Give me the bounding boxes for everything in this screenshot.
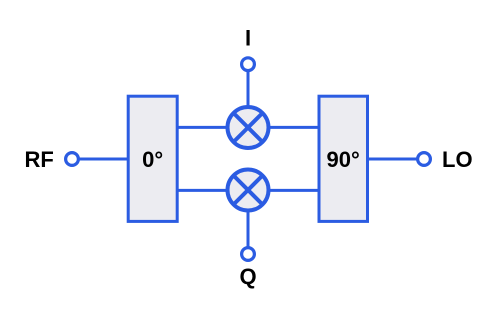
wire splitter to bottom mixer — [177, 189, 227, 192]
port LO terminal — [418, 153, 431, 166]
svg-text:Q: Q — [239, 264, 256, 289]
svg-text:0°: 0° — [142, 147, 163, 172]
port RF terminal — [66, 153, 79, 166]
wire bottom mixer to Q port — [247, 212, 250, 247]
wire splitter to top mixer — [177, 126, 227, 129]
mixer M1 (I branch) — [228, 107, 269, 148]
port I terminal — [242, 58, 255, 71]
mixer M2 (Q branch) — [228, 170, 269, 211]
wire I port to top mixer — [247, 71, 250, 106]
svg-text:I: I — [245, 26, 251, 51]
block U1 0-deg splitter — [128, 96, 177, 221]
svg-text:90°: 90° — [327, 147, 360, 172]
wire RF port to 0-deg splitter — [79, 158, 128, 161]
port Q terminal — [242, 248, 255, 261]
svg-text:LO: LO — [442, 147, 473, 172]
svg-text:RF: RF — [25, 147, 54, 172]
wire top mixer to 90-deg combiner — [269, 126, 320, 129]
wire combiner to LO port — [368, 158, 417, 161]
wire bottom mixer to 90-deg combiner — [269, 189, 320, 192]
block U2 90-deg combiner — [319, 96, 368, 221]
